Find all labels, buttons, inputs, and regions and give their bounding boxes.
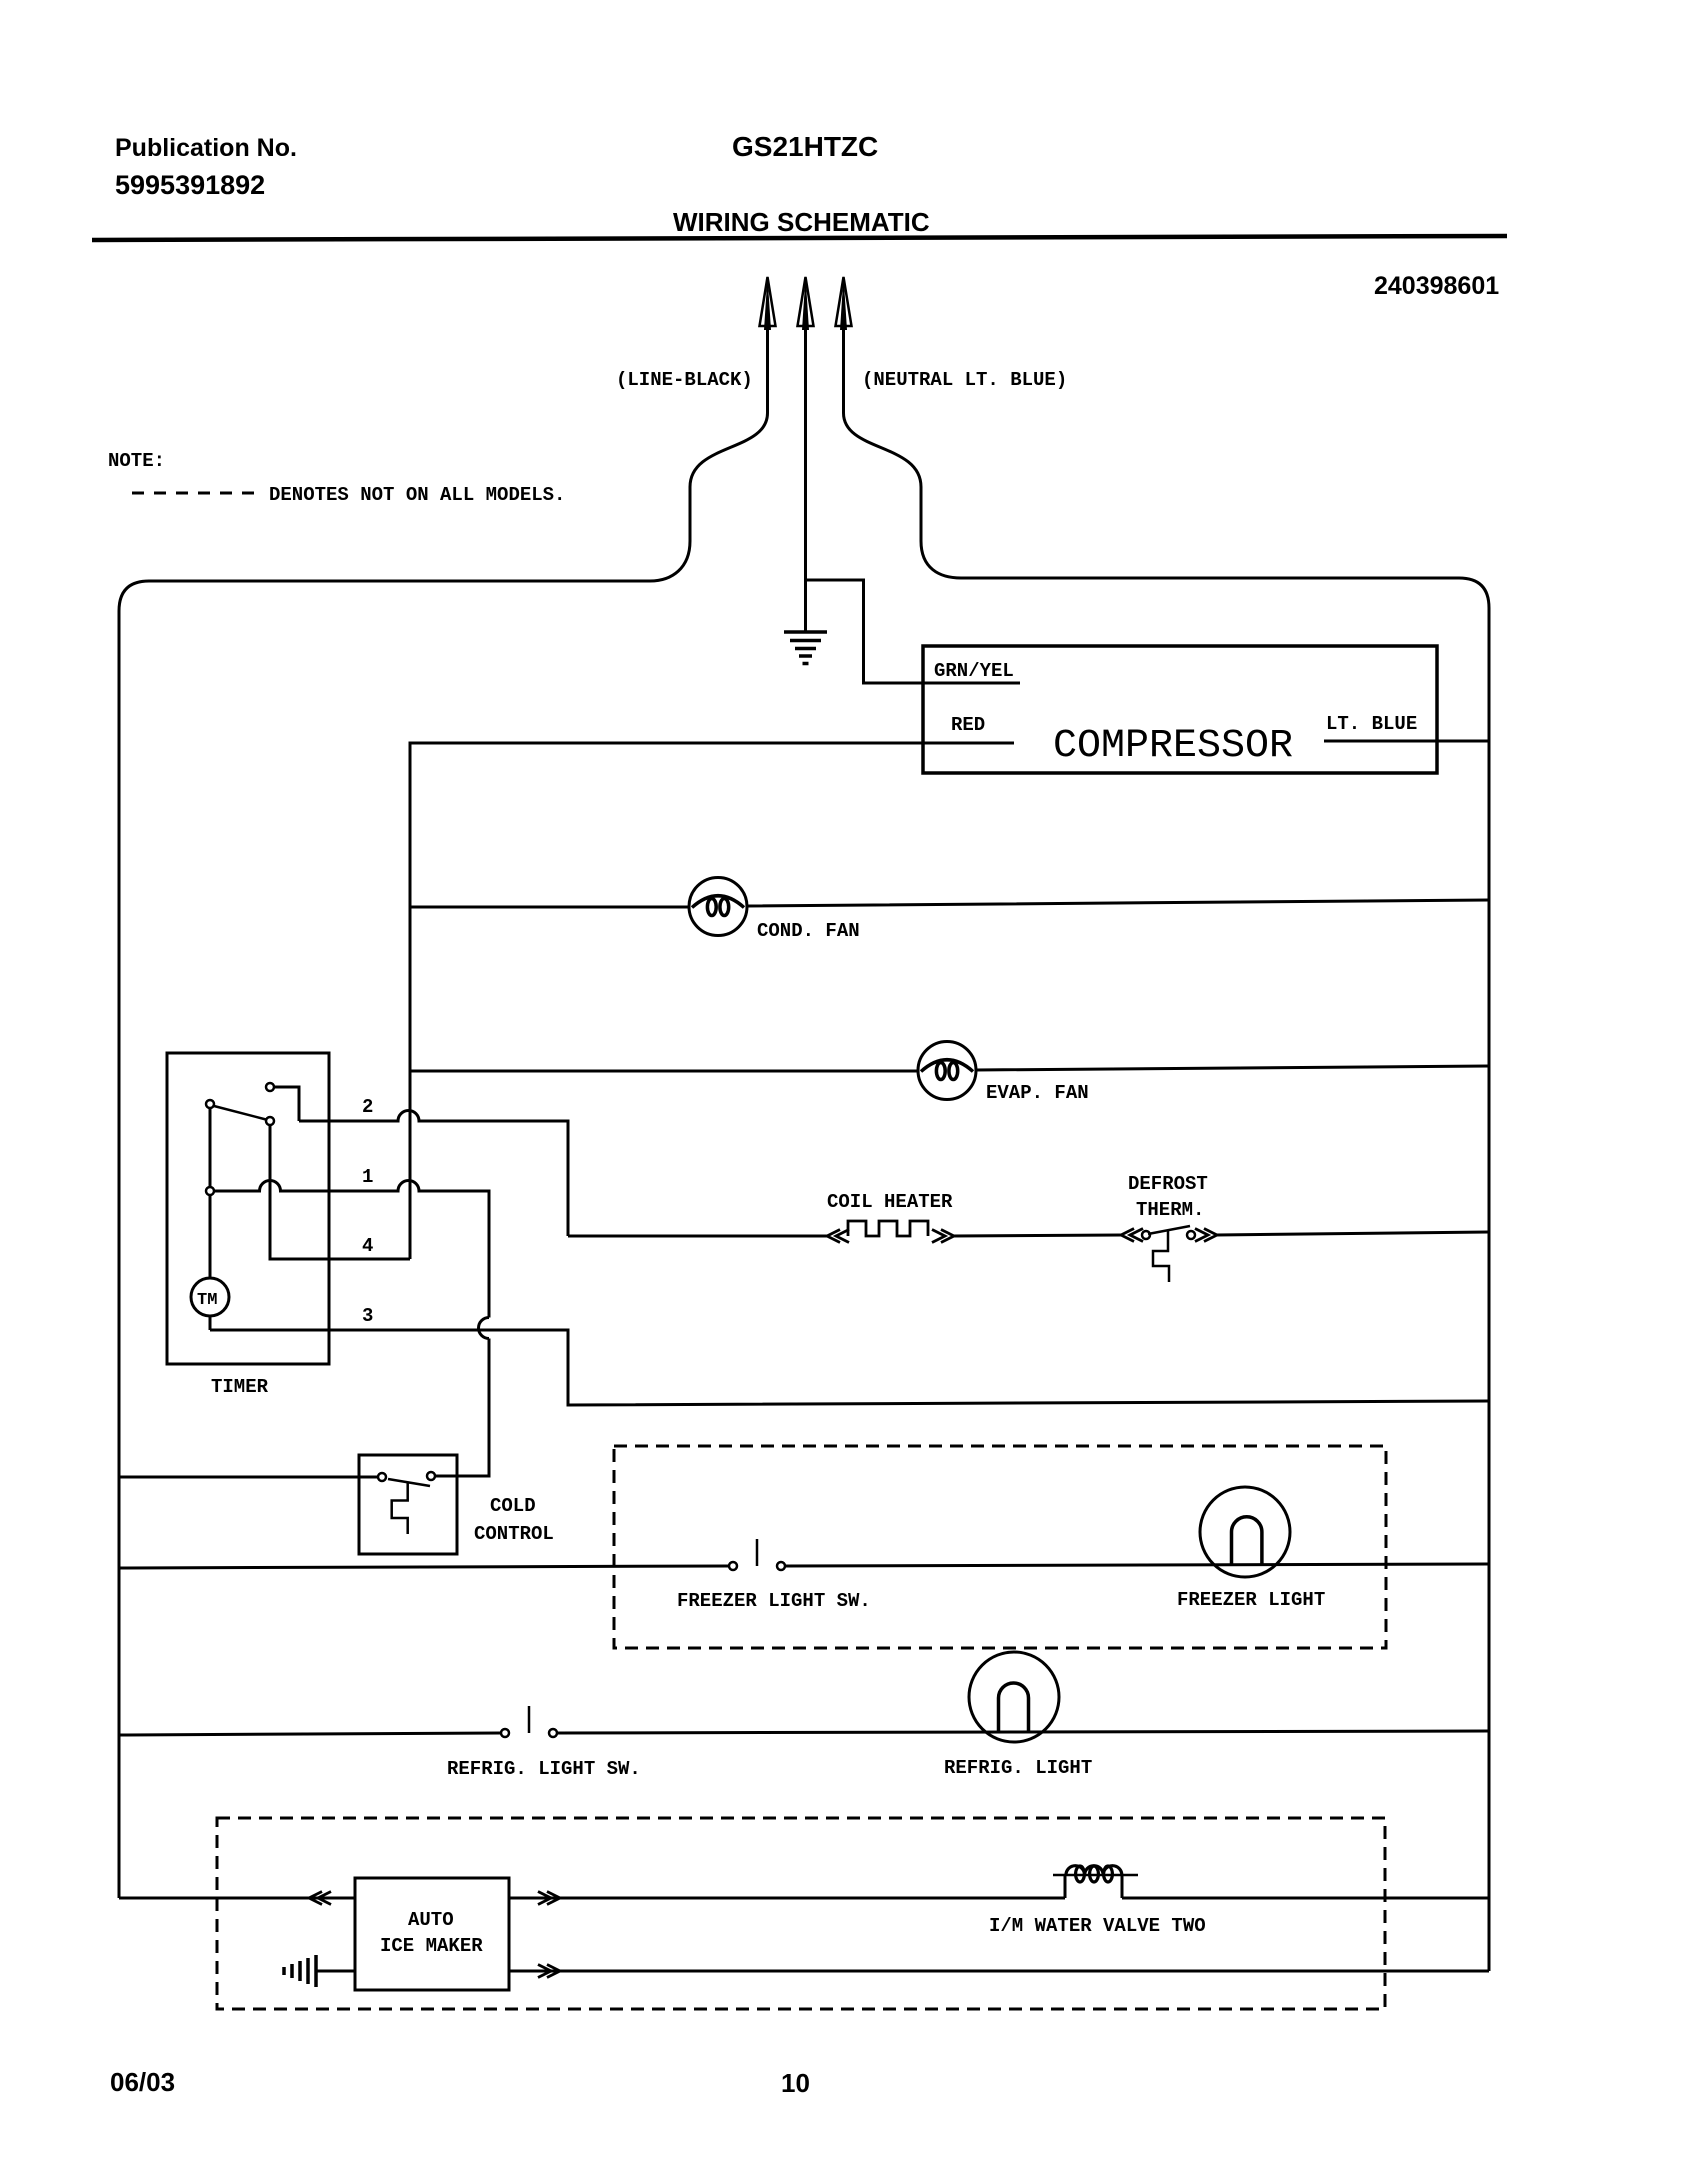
wire 2: timer to coil heater, hops over red bus — [299, 1111, 568, 1237]
freezer light switch actuator — [756, 1539, 759, 1566]
wire: heater line from wire 2 corner to defrost thermostat — [568, 1235, 1121, 1236]
timer box TM — [167, 1053, 329, 1364]
header: publication number text — [115, 134, 297, 200]
timer terminal (top feed) — [266, 1083, 274, 1091]
motor M2 evap. fan — [918, 1042, 976, 1100]
timer motor TM — [191, 1278, 229, 1316]
svg-text:4: 4 — [362, 1235, 373, 1257]
heater element R1 square wave — [848, 1221, 928, 1236]
freezer light switch right terminal — [777, 1562, 785, 1570]
wire: defrost to right bus — [1216, 1232, 1489, 1235]
wire: refrig light circuit right — [557, 1731, 1489, 1733]
timer contact terminal 4 — [266, 1117, 274, 1125]
svg-text:RED: RED — [951, 714, 985, 736]
wire: refrig light circuit left — [119, 1733, 501, 1735]
wire: red feed from compressor to left bus — [410, 743, 1014, 1259]
line terminal arrow (right, neutral) — [836, 276, 852, 330]
svg-text:FREEZER LIGHT SW.: FREEZER LIGHT SW. — [677, 1590, 871, 1612]
wire 1 vertical hop over wire 3 — [479, 1318, 489, 1339]
wire 3: timer motor to right side — [210, 1330, 1489, 1405]
svg-text:5995391892: 5995391892 — [115, 170, 265, 200]
svg-text:10: 10 — [781, 2068, 810, 2098]
svg-text:Publication No.: Publication No. — [115, 134, 297, 162]
svg-text:REFRIG. LIGHT SW.: REFRIG. LIGHT SW. — [447, 1758, 641, 1780]
label COLD CONTROL — [474, 1495, 554, 1545]
svg-text:2: 2 — [362, 1096, 373, 1118]
wire: left bus bottom corner to ice maker — [119, 1897, 355, 1900]
svg-text:REFRIG. LIGHT: REFRIG. LIGHT — [944, 1757, 1092, 1779]
wire: condenser fan branch — [410, 900, 1489, 907]
connector chevrons out of ice maker (upper right) — [538, 1892, 560, 1905]
svg-text:THERM.: THERM. — [1136, 1199, 1204, 1221]
refrig light switch left terminal — [501, 1729, 509, 1737]
svg-text:GS21HTZC: GS21HTZC — [732, 131, 878, 162]
svg-text:LT. BLUE: LT. BLUE — [1326, 713, 1417, 735]
wire: cold control feed from left bus — [119, 1476, 378, 1479]
defrost connector chevrons left — [1121, 1229, 1143, 1242]
svg-text:(LINE-BLACK): (LINE-BLACK) — [616, 369, 753, 391]
svg-text:COMPRESSOR: COMPRESSOR — [1053, 724, 1293, 769]
svg-text:3: 3 — [362, 1305, 373, 1327]
timer switch arm — [214, 1106, 266, 1120]
auto ice maker box A1 — [355, 1878, 509, 1990]
svg-text:TIMER: TIMER — [211, 1376, 269, 1398]
lamp L2 refrig. light — [969, 1652, 1059, 1742]
wire: ground lead vertical — [804, 326, 807, 631]
svg-text:COND. FAN: COND. FAN — [757, 920, 860, 942]
wire: line-black lead S-curve into loop top left — [650, 326, 768, 581]
svg-text:AUTO: AUTO — [408, 1909, 454, 1931]
note dashed sample — [132, 492, 258, 495]
wire: freezer light circuit right — [785, 1564, 1489, 1566]
svg-text:DENOTES NOT ON ALL MODELS.: DENOTES NOT ON ALL MODELS. — [269, 484, 565, 506]
svg-text:GRN/YEL: GRN/YEL — [934, 660, 1014, 682]
svg-text:DEFROST: DEFROST — [1128, 1173, 1208, 1195]
svg-text:ICE MAKER: ICE MAKER — [380, 1935, 483, 1957]
ice maker dashed enclosure — [217, 1818, 1385, 2009]
coil heater connector chevrons right — [932, 1230, 954, 1243]
wire: lt. blue from compressor to right bus — [1324, 740, 1489, 743]
freezer compartment dashed enclosure — [614, 1446, 1386, 1648]
defrost thermostat switch arm — [1148, 1226, 1190, 1234]
svg-text:FREEZER LIGHT: FREEZER LIGHT — [1177, 1589, 1325, 1611]
svg-text:(NEUTRAL LT. BLUE): (NEUTRAL LT. BLUE) — [862, 369, 1067, 391]
svg-text:NOTE:: NOTE: — [108, 450, 165, 472]
cold control thermal actuator zigzag — [392, 1483, 408, 1534]
lamp L1 freezer light — [1200, 1487, 1290, 1577]
defrost connector chevrons right — [1195, 1229, 1217, 1242]
wire from top terminal to contact 2 line — [274, 1087, 299, 1121]
ground symbol — [784, 632, 827, 664]
label AUTO ICE MAKER — [380, 1909, 483, 1957]
wire: ice maker lower output to right bus corner — [509, 1970, 1489, 1973]
compressor box U1 — [923, 646, 1437, 773]
refrig light switch actuator — [528, 1706, 531, 1733]
svg-text:1: 1 — [362, 1166, 373, 1188]
svg-text:COIL HEATER: COIL HEATER — [827, 1191, 953, 1213]
wire pivot to terminal 1 — [209, 1108, 212, 1187]
timer switch pivot terminal — [206, 1100, 214, 1108]
wire: neutral lead S-curve into loop top right — [844, 326, 962, 578]
wire: outer loop top-left edge and left bus — [119, 581, 650, 1898]
timer terminal 1 (lower pivot) — [206, 1187, 214, 1195]
connector chevrons out of ice maker (lower right) — [538, 1965, 560, 1978]
svg-text:CONTROL: CONTROL — [474, 1523, 554, 1545]
freezer light switch left terminal — [729, 1562, 737, 1570]
wire 1: timer to cold control, hops over contact wire and red bus — [214, 1181, 489, 1318]
connector chevrons into ice maker (left) — [309, 1892, 331, 1905]
cold control left terminal — [378, 1473, 386, 1481]
line terminal arrow (left, line-black) — [760, 276, 776, 330]
solenoid coil: i/m water valve two — [1053, 1866, 1138, 1898]
wire: freezer light circuit left — [119, 1566, 729, 1568]
wire: outer loop top-right edge and right bus — [961, 578, 1489, 1971]
wire: ice maker output to right bus — [509, 1897, 1489, 1900]
line terminal arrow (middle, ground) — [798, 276, 814, 330]
refrig light switch right terminal — [549, 1729, 557, 1737]
label DEFROST THERM. — [1128, 1173, 1208, 1221]
header rule — [92, 236, 1507, 240]
svg-text:I/M WATER VALVE TWO: I/M WATER VALVE TWO — [989, 1915, 1206, 1937]
wire 4: timer contact down and to red bus — [270, 1125, 410, 1259]
wire: ground comb to ice maker — [316, 1970, 355, 1973]
svg-text:06/03: 06/03 — [110, 2067, 175, 2097]
svg-text:COLD: COLD — [490, 1495, 536, 1517]
chassis ground comb (ice maker) — [284, 1955, 316, 1987]
cold control box S1 — [359, 1455, 457, 1554]
cold control right terminal — [427, 1472, 435, 1480]
wire terminal 1 down to timer motor — [209, 1195, 212, 1278]
svg-text:WIRING SCHEMATIC: WIRING SCHEMATIC — [673, 207, 930, 237]
svg-text:TM: TM — [197, 1291, 217, 1310]
defrost thermostat left terminal — [1142, 1231, 1150, 1239]
defrost thermostat right terminal — [1187, 1231, 1195, 1239]
defrost thermostat bimetal zigzag — [1153, 1230, 1169, 1282]
motor M1 cond. fan — [689, 878, 747, 936]
svg-text:240398601: 240398601 — [1374, 272, 1499, 300]
wire timer motor to contact 3 line — [209, 1316, 212, 1330]
svg-text:EVAP. FAN: EVAP. FAN — [986, 1082, 1089, 1104]
cold control switch arm — [388, 1479, 430, 1486]
wire: grn/yel branch from ground lead to compressor — [806, 580, 1021, 683]
wire 1 vertical to cold control — [435, 1339, 489, 1477]
coil heater connector chevrons left — [827, 1230, 849, 1243]
wire: evaporator fan branch — [410, 1066, 1489, 1071]
